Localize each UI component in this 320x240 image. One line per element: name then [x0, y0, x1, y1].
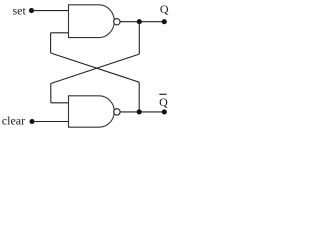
- junction on Q net: [137, 19, 142, 24]
- Qbar output terminal dot: [162, 109, 167, 114]
- wire into U2 input pin 1: [51, 102, 69, 104]
- wire Q feedback vertical drop from junction: [138, 22, 140, 54]
- wire Qbar feedback vertical drop on left: [50, 33, 52, 53]
- svg-text:Q: Q: [160, 2, 169, 16]
- wire clear terminal to U2 input pin 2: [32, 121, 69, 123]
- NAND gate U1 inversion bubble: [114, 19, 120, 25]
- svg-text:Q: Q: [159, 95, 168, 109]
- junction on Qbar net: [137, 109, 142, 114]
- svg-text:clear: clear: [2, 114, 25, 128]
- wire Q feedback vertical drop on left: [50, 84, 52, 103]
- NAND gate U2 inversion bubble: [114, 109, 120, 115]
- wire from U1 input pin 2 to the left: [51, 32, 69, 34]
- overline of Qbar label: [159, 93, 166, 95]
- set input terminal dot: [29, 8, 34, 13]
- wire U2 output to Qbar terminal: [120, 111, 164, 113]
- NAND gate U1 body: [69, 5, 115, 38]
- svg-text:set: set: [13, 4, 27, 18]
- wire U1 output to Q terminal: [120, 21, 164, 23]
- wire Qbar feedback diagonal to lower right: [51, 53, 140, 82]
- wire Qbar feedback vertical drop to bottom junction: [138, 82, 140, 112]
- Q output terminal dot: [162, 19, 167, 24]
- NAND gate U2 body: [69, 96, 115, 127]
- clear input terminal dot: [29, 119, 34, 124]
- wire set terminal to U1 input pin 1: [32, 10, 69, 12]
- wire Q feedback diagonal to lower left: [51, 54, 140, 83]
